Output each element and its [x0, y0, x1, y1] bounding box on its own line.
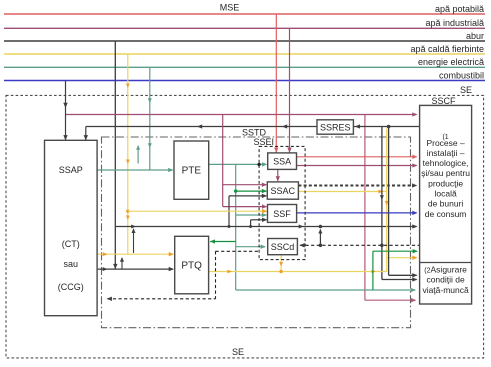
- svg-text:de consum: de consum: [425, 209, 467, 219]
- svg-text:(CCG): (CCG): [58, 282, 84, 292]
- svg-text:SSAC: SSAC: [271, 186, 296, 196]
- svg-text:producţie: producţie: [428, 178, 463, 188]
- svg-text:PTE: PTE: [182, 166, 202, 177]
- svg-text:(2Asigurare: (2Asigurare: [424, 265, 467, 275]
- svg-text:Procese –: Procese –: [426, 138, 465, 148]
- svg-text:SE: SE: [232, 347, 244, 357]
- svg-text:SSTD: SSTD: [242, 127, 267, 137]
- svg-text:PTQ: PTQ: [181, 261, 202, 272]
- svg-text:SSRES: SSRES: [320, 122, 351, 132]
- svg-text:apă caldă fierbinte: apă caldă fierbinte: [410, 44, 484, 54]
- svg-text:tehnologice,: tehnologice,: [423, 158, 469, 168]
- svg-text:instalaţii –: instalaţii –: [427, 148, 465, 158]
- svg-text:SSEI: SSEI: [254, 137, 275, 147]
- svg-text:SSF: SSF: [273, 209, 291, 219]
- svg-text:combustibil: combustibil: [439, 71, 484, 81]
- svg-text:SSCF: SSCF: [431, 96, 456, 106]
- svg-text:MSE: MSE: [220, 3, 240, 13]
- svg-text:SSA: SSA: [273, 157, 291, 167]
- svg-text:energie electrică: energie electrică: [418, 57, 484, 67]
- svg-text:locală: locală: [434, 189, 456, 199]
- svg-text:viaţă-muncă: viaţă-muncă: [422, 285, 469, 295]
- svg-text:(CT): (CT): [62, 239, 80, 249]
- svg-text:condiţii de: condiţii de: [426, 275, 465, 285]
- svg-text:şi/sau pentru: şi/sau pentru: [421, 168, 470, 178]
- svg-text:SSAP: SSAP: [59, 165, 83, 175]
- svg-text:SSCd: SSCd: [271, 242, 295, 252]
- svg-text:sau: sau: [64, 259, 79, 269]
- svg-text:de bunuri: de bunuri: [428, 199, 464, 209]
- svg-text:apă industrială: apă industrială: [425, 18, 484, 28]
- svg-text:abur: abur: [466, 31, 484, 41]
- svg-text:apă potabilă: apă potabilă: [435, 4, 484, 14]
- svg-text:SE: SE: [460, 85, 472, 95]
